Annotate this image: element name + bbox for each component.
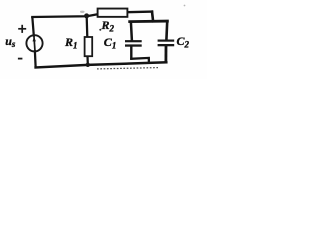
- voltage source internal line: [34, 36, 35, 52]
- wire C1 bottom lead: [130, 46, 132, 58]
- label C1: [104, 36, 117, 51]
- junction dot top (R1/top rail): [84, 13, 89, 18]
- scan smudge above junction dot: [80, 11, 85, 13]
- plus polarity mark: [18, 25, 26, 33]
- resistor R2: [98, 9, 128, 17]
- minus polarity mark: [18, 58, 23, 60]
- junction dot bottom (R1/bottom rail): [86, 63, 90, 67]
- voltage source us circle: [26, 35, 42, 51]
- speckle dot upper right: [184, 5, 186, 7]
- wire C2 top lead: [165, 22, 168, 40]
- wire R1 bottom lead: [86, 56, 89, 65]
- resistor R1: [85, 37, 93, 56]
- capacitor C2 top plate: [158, 40, 175, 42]
- wire R1 top lead: [86, 17, 89, 38]
- wire R2 corner drop: [152, 12, 153, 22]
- wire top bus over capacitors: [130, 20, 168, 23]
- dashed artifact line lower right: [97, 68, 158, 69]
- label R1: [65, 36, 78, 51]
- wire R2 right lead to corner: [127, 10, 152, 13]
- wire C1 top lead: [131, 22, 132, 41]
- label us: [5, 35, 15, 49]
- wire bottom rail: [36, 62, 167, 67]
- wire top rail: [32, 14, 98, 17]
- wire source bottom lead: [34, 51, 37, 66]
- wire C2 bottom lead: [164, 46, 167, 62]
- capacitor C2 bottom plate: [158, 44, 175, 46]
- capacitor C1 bottom plate: [125, 44, 142, 46]
- label R2: [102, 19, 115, 34]
- speckle dot before R2 label: [99, 29, 101, 31]
- wire top-left vertical from source to top rail: [32, 18, 33, 36]
- label C2: [177, 35, 190, 50]
- voltage source arrowhead: [33, 37, 36, 42]
- capacitor C1 top plate: [125, 40, 142, 42]
- wire C1 step to bottom rail: [131, 58, 149, 63]
